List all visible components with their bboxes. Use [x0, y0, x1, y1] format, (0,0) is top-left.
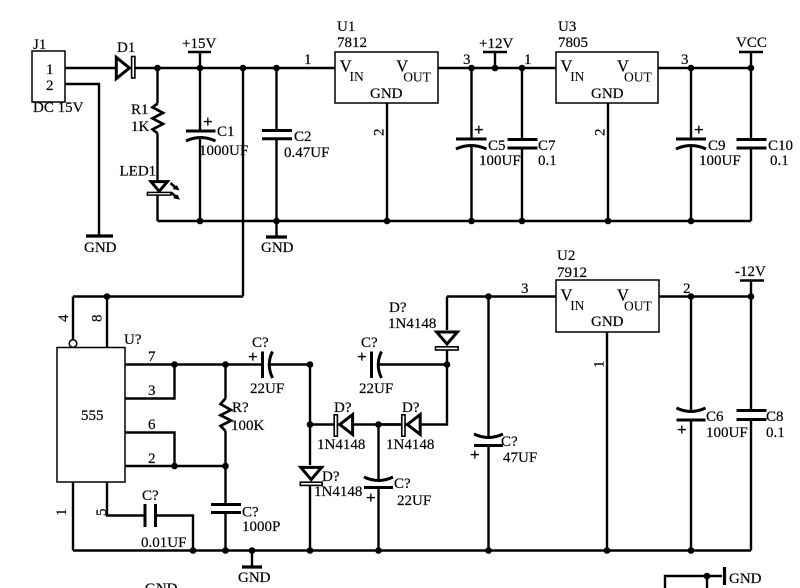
svg-text:1: 1: [54, 509, 70, 517]
wire J1 pin1 to D1: [65, 67, 115, 69]
svg-text:DC 15V: DC 15V: [33, 100, 84, 116]
wire 555 pin 3: [125, 365, 175, 400]
power VCC: [736, 35, 767, 68]
svg-text:+15V: +15V: [182, 36, 216, 52]
svg-text:-12V: -12V: [735, 264, 766, 280]
node -12V: [748, 293, 755, 300]
LED LED1: [120, 164, 181, 222]
node bottom diode to rail: [307, 547, 314, 554]
node U2 gnd bottom: [604, 547, 611, 554]
node 1000P bottom: [222, 547, 229, 554]
svg-text:D1: D1: [117, 40, 135, 56]
svg-text:IN: IN: [350, 69, 364, 84]
svg-text:+: +: [474, 120, 484, 139]
svg-text:6: 6: [148, 417, 156, 433]
svg-text:7: 7: [148, 349, 156, 365]
svg-text:22UF: 22UF: [250, 381, 284, 397]
IC U3 7805: [556, 19, 658, 103]
svg-text:7805: 7805: [558, 35, 588, 51]
capacitor C8 0.1: [737, 297, 785, 551]
svg-text:J1: J1: [33, 37, 46, 53]
ground GND (below C2): [261, 221, 294, 256]
IC U2 7912: [556, 248, 659, 332]
wire 555 pin 6: [125, 417, 175, 466]
capacitor C6 100UF: [677, 297, 748, 551]
wire 555 pin 8: [90, 297, 108, 348]
svg-text:1: 1: [46, 62, 54, 78]
node diode chain mid: [444, 361, 451, 368]
capacitor C? 22UF (second, horizontal): [357, 335, 447, 397]
svg-text:100K: 100K: [231, 418, 265, 434]
capacitor C2 0.47UF: [262, 68, 329, 221]
node +12V: [492, 65, 499, 72]
wire 555 pin 1: [54, 482, 73, 551]
capacitor C? 22UF (vertical): [364, 425, 431, 551]
svg-text:5: 5: [94, 509, 110, 517]
svg-text:C6: C6: [706, 409, 724, 425]
diode D? 1N4148 (left horizontal): [317, 400, 365, 453]
svg-text:0.1: 0.1: [770, 153, 789, 169]
svg-text:C2: C2: [294, 129, 312, 145]
resistor R1: [131, 68, 163, 181]
svg-text:0.47UF: 0.47UF: [284, 145, 329, 161]
svg-text:0.1: 0.1: [538, 153, 557, 169]
node C6 top: [688, 293, 695, 300]
svg-text:2: 2: [593, 129, 609, 137]
svg-text:D?: D?: [389, 300, 407, 316]
svg-text:C?: C?: [501, 434, 518, 450]
svg-text:C10: C10: [768, 138, 793, 154]
svg-text:OUT: OUT: [403, 70, 431, 85]
svg-text:D?: D?: [322, 469, 340, 485]
svg-text:+12V: +12V: [479, 36, 513, 52]
connector J1: [32, 37, 84, 116]
node U3 gnd bottom: [605, 218, 612, 225]
svg-text:C7: C7: [538, 138, 556, 154]
svg-text:GND: GND: [591, 86, 624, 102]
svg-text:D?: D?: [402, 400, 420, 416]
node vertical feed top: [240, 65, 247, 72]
node C7 top: [519, 65, 526, 72]
svg-text:7912: 7912: [557, 265, 587, 281]
node 0.01UF bottom: [190, 547, 197, 554]
node pin7/pin3 join: [171, 361, 178, 368]
svg-text:1000UF: 1000UF: [199, 143, 248, 159]
svg-text:1: 1: [524, 52, 532, 68]
node pin2/pin6 join: [171, 463, 178, 470]
wire first 22UF junction down: [309, 365, 311, 466]
ground GND (bottom right partial): [665, 567, 762, 588]
node 22UF vertical top: [375, 421, 382, 428]
svg-text:GND: GND: [370, 86, 403, 102]
diode D? 1N4148 (bottom vertical): [300, 467, 362, 550]
IC U1 7812: [335, 19, 438, 103]
svg-text:22UF: 22UF: [397, 493, 431, 509]
wire U2 VIN rail: [447, 295, 556, 297]
svg-text:47UF: 47UF: [503, 450, 537, 466]
capacitor C5 100UF: [456, 68, 521, 221]
wire U3 out to VCC: [658, 67, 751, 69]
node pin8 top: [104, 293, 111, 300]
node C6 bottom: [688, 547, 695, 554]
svg-text:+: +: [357, 347, 367, 366]
svg-text:1N4148: 1N4148: [317, 437, 365, 453]
svg-text:+: +: [248, 347, 258, 366]
wire U1 GND pin 2: [372, 103, 388, 221]
svg-text:GND: GND: [84, 240, 117, 256]
svg-text:C?: C?: [142, 488, 159, 504]
node C5 top: [468, 65, 475, 72]
wire U1 out to U3 in: [438, 67, 556, 69]
wire 555 pin 2: [125, 451, 226, 467]
power -12V: [735, 264, 766, 297]
svg-text:1: 1: [592, 361, 608, 369]
svg-text:GND: GND: [261, 240, 294, 256]
node C1 bottom: [197, 218, 204, 225]
wire 555 supply rail (pins 4,8): [73, 295, 243, 297]
diode D1: [116, 40, 135, 79]
ground GND (below J1): [84, 236, 117, 256]
capacitor C10 0.1: [737, 68, 794, 221]
svg-text:100UF: 100UF: [699, 153, 741, 169]
svg-text:U2: U2: [557, 248, 575, 264]
svg-text:VCC: VCC: [736, 35, 767, 51]
node U1 gnd bottom: [384, 218, 391, 225]
svg-text:GND: GND: [591, 314, 624, 330]
svg-text:C8: C8: [766, 409, 784, 425]
capacitor C7 0.1: [508, 68, 557, 221]
wire bottom rail (top section): [158, 220, 752, 222]
svg-text:C?: C?: [394, 476, 411, 492]
node C5 bottom: [468, 218, 475, 225]
svg-text:R1: R1: [131, 102, 149, 118]
node R1 top: [154, 65, 161, 72]
svg-text:3: 3: [521, 281, 529, 297]
svg-text:U?: U?: [124, 332, 142, 348]
svg-text:1000P: 1000P: [242, 519, 280, 535]
svg-text:7812: 7812: [337, 35, 367, 51]
node C7 bottom: [519, 218, 526, 225]
svg-text:C5: C5: [488, 138, 506, 154]
node C1 top: [197, 65, 204, 72]
svg-text:1N4148: 1N4148: [388, 316, 436, 332]
svg-text:C1: C1: [217, 124, 235, 140]
svg-text:1: 1: [304, 52, 312, 68]
capacitor C? 22UF (first, horizontal): [248, 335, 310, 397]
svg-text:C9: C9: [708, 138, 726, 154]
wire U3 GND pin 2: [593, 103, 609, 221]
svg-text:1N4148: 1N4148: [386, 437, 434, 453]
node R? bottom: [222, 463, 229, 470]
svg-text:8: 8: [90, 315, 106, 323]
svg-text:555: 555: [81, 408, 104, 424]
node C2 top: [273, 65, 280, 72]
svg-text:GND: GND: [238, 570, 271, 586]
svg-text:4: 4: [56, 314, 72, 322]
capacitor C? 47UF: [470, 297, 537, 551]
wire J1 pin2 down to ground: [65, 84, 99, 235]
svg-text:1N4148: 1N4148: [314, 484, 362, 500]
resistor R? 100K: [221, 365, 265, 467]
svg-text:U1: U1: [337, 19, 355, 35]
diode D? 1N4148 (top vertical): [388, 297, 458, 365]
svg-text:OUT: OUT: [624, 299, 652, 314]
wire U2 out to -12V: [659, 295, 751, 297]
wire 555 pin 4: [56, 297, 77, 348]
wire U2 GND pin 1: [592, 332, 608, 551]
node C9 bottom: [688, 218, 695, 225]
wire D1 to U1 pin 1 (+15V rail): [135, 67, 336, 69]
node 47UF top: [485, 293, 492, 300]
svg-text:22UF: 22UF: [359, 381, 393, 397]
power +15V: [182, 36, 216, 68]
svg-text:+: +: [677, 420, 687, 439]
svg-text:GND: GND: [145, 581, 178, 588]
svg-text:D?: D?: [334, 400, 352, 416]
svg-text:100UF: 100UF: [706, 425, 748, 441]
svg-text:U3: U3: [558, 19, 576, 35]
svg-text:R?: R?: [232, 400, 249, 416]
capacitor C1 1000UF: [186, 68, 248, 221]
svg-text:+: +: [366, 488, 376, 507]
svg-text:+: +: [470, 445, 480, 464]
ground GND (mid rail): [238, 551, 271, 587]
node C9 top: [688, 65, 695, 72]
svg-text:100UF: 100UF: [479, 153, 521, 169]
wire diode mid down to lower rail: [379, 365, 448, 425]
svg-text:OUT: OUT: [624, 70, 652, 85]
svg-text:+: +: [203, 112, 213, 131]
node 47UF bottom: [485, 547, 492, 554]
IC U? 555: [57, 332, 142, 482]
node lower rail left: [307, 421, 314, 428]
node 22UF vertical bottom: [375, 547, 382, 554]
diode D? 1N4148 (right horizontal): [386, 400, 434, 453]
wire lower link rail: [310, 423, 402, 425]
svg-text:3: 3: [148, 383, 156, 399]
svg-text:2: 2: [372, 129, 388, 137]
svg-text:+: +: [694, 120, 704, 139]
svg-text:0.1: 0.1: [766, 425, 785, 441]
wire 555 pin 5: [94, 482, 144, 516]
node VCC: [748, 65, 755, 72]
svg-text:0.01UF: 0.01UF: [141, 535, 186, 551]
node R? top: [222, 361, 229, 368]
svg-text:3: 3: [681, 52, 689, 68]
svg-text:GND: GND: [729, 571, 762, 587]
capacitor C9 100UF: [676, 68, 741, 221]
svg-text:1K: 1K: [131, 119, 150, 135]
wire vertical feed (top rail to 555 supply rail): [242, 68, 244, 297]
capacitor C? 1000P: [211, 466, 280, 551]
node C2 bottom: [273, 218, 280, 225]
wire 555 pin 7: [125, 349, 263, 365]
wire bottom rail (mid section): [73, 549, 751, 551]
node between 22UF caps: [307, 361, 314, 368]
svg-text:2: 2: [148, 451, 156, 467]
node gnd stub: [249, 547, 256, 554]
svg-text:IN: IN: [570, 298, 584, 313]
power +12V: [479, 36, 513, 68]
capacitor C? 0.01UF: [141, 488, 193, 551]
svg-text:LED1: LED1: [120, 164, 157, 180]
svg-text:IN: IN: [570, 69, 584, 84]
svg-text:2: 2: [46, 78, 54, 94]
